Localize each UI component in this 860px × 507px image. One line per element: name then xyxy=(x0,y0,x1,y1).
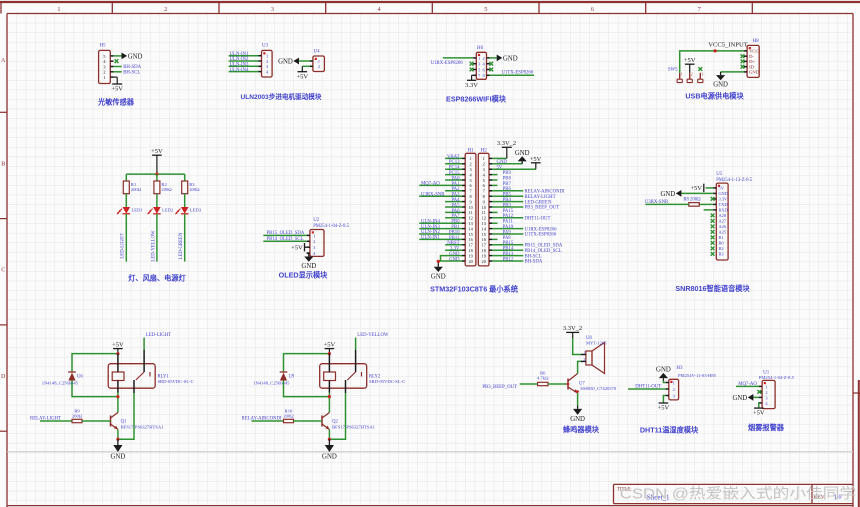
net label RELAY-LIGHT xyxy=(30,417,61,422)
svg-text:GND: GND xyxy=(732,395,747,402)
svg-text:5V: 5V xyxy=(497,166,503,171)
net label U3RX-SNR xyxy=(421,192,445,197)
svg-text:ULN-IN4: ULN-IN4 xyxy=(230,68,250,73)
ground GND at U1 pin3 xyxy=(732,394,753,402)
ground GND at H6 pin2 xyxy=(497,55,518,63)
pin name PB13 xyxy=(503,252,514,257)
svg-text:SNR8016智能语音模块: SNR8016智能语音模块 xyxy=(675,284,750,293)
resistor R1 200Ω xyxy=(123,181,141,194)
svg-text:200Ω: 200Ω xyxy=(131,187,142,192)
net label LED-GREEN vertical xyxy=(179,232,184,259)
wire H2 pin4 stub xyxy=(492,174,498,176)
no-connect X U5 A28 xyxy=(711,214,715,218)
svg-text:10: 10 xyxy=(468,205,472,210)
connector H8 designator xyxy=(753,39,760,44)
svg-text:LED-LIGHT: LED-LIGHT xyxy=(146,333,171,338)
wire H2 pin15 U1TX-ESP8266 xyxy=(492,233,523,235)
pin name GND H1 pin20 xyxy=(449,257,460,262)
wire emitter to ground xyxy=(117,430,119,440)
wire U1 pin3 to GND xyxy=(753,396,759,398)
svg-text:GND: GND xyxy=(111,453,126,460)
junction emitter Q1 xyxy=(116,438,119,441)
net label DHT11-OUT xyxy=(525,217,551,222)
row letters xyxy=(1,58,6,380)
svg-text:1: 1 xyxy=(478,56,480,61)
svg-text:H2: H2 xyxy=(481,148,488,153)
svg-text:3.3V_2: 3.3V_2 xyxy=(497,140,516,147)
connector U2 xyxy=(307,230,324,257)
pin name PB9 xyxy=(503,171,512,176)
svg-text:PA0: PA0 xyxy=(451,176,460,181)
wire LED-YELLOW to relay contact xyxy=(355,338,357,350)
wire H2 pin5 stub xyxy=(492,179,498,181)
connector H6 xyxy=(473,52,490,79)
power +5V at SW5 pin2 xyxy=(684,57,696,73)
svg-text:PA11: PA11 xyxy=(503,220,514,225)
no-connect X H8 D+ xyxy=(741,60,745,64)
svg-text:GND: GND xyxy=(656,367,671,374)
net label ULN-IN4 xyxy=(230,68,250,73)
svg-text:VCC: VCC xyxy=(749,49,758,54)
diode U9 1N4148 xyxy=(253,372,295,385)
net port VCC5_INPUT xyxy=(708,42,748,49)
wire U3 pin1 ULN-IN1 xyxy=(229,55,259,57)
power +5V at H2 pin3 xyxy=(530,156,542,169)
module title 蜂鸣器模块 xyxy=(563,425,600,434)
net label BH-SCL xyxy=(123,70,140,75)
wire H5 pin3 BH-SDA xyxy=(113,66,122,68)
net label BH-SDA xyxy=(123,65,141,70)
svg-text:2: 2 xyxy=(164,6,167,13)
svg-text:PB10: PB10 xyxy=(449,230,460,235)
svg-text:GND: GND xyxy=(570,416,585,423)
wire R10 to base xyxy=(294,420,323,422)
svg-text:PA4: PA4 xyxy=(451,198,460,203)
pin name PA10 xyxy=(503,225,514,230)
svg-text:13: 13 xyxy=(482,221,486,226)
wire H6 pin1 U1RX-ESP8266 xyxy=(443,57,474,59)
wire H3 pin1 to GND xyxy=(663,381,665,383)
svg-text:C: C xyxy=(1,268,5,274)
svg-text:PC15: PC15 xyxy=(449,171,460,176)
pin name PA15 xyxy=(503,209,514,214)
svg-text:7: 7 xyxy=(698,6,701,13)
svg-text:PA7: PA7 xyxy=(451,214,460,219)
svg-text:OLED显示模块: OLED显示模块 xyxy=(279,270,329,279)
wire H5 pin2 BH-SCL xyxy=(113,71,122,73)
connector U2 value PM254-1-04-Z-8.5 xyxy=(313,224,349,229)
svg-text:PB12: PB12 xyxy=(503,257,514,262)
pin name PA5 xyxy=(451,203,460,208)
net label ULN-IN3 xyxy=(421,225,441,230)
net label RELAY-AIRCONDI xyxy=(242,417,282,422)
no-connect X U5 B0 xyxy=(711,241,715,245)
wire H2 pin16 stub xyxy=(492,238,498,240)
svg-text:13: 13 xyxy=(468,221,472,226)
pin name PA3 xyxy=(451,193,460,198)
svg-text:PA8: PA8 xyxy=(503,236,512,241)
svg-text:3: 3 xyxy=(702,72,704,76)
pin name 3.3V xyxy=(450,247,460,252)
svg-text:ULN2003步进电机驱动模块: ULN2003步进电机驱动模块 xyxy=(241,92,322,101)
power +5V at H5 pin1 xyxy=(111,77,123,93)
wire diode U9 to coil bottom xyxy=(284,381,330,397)
net label MQ7-AO xyxy=(738,382,757,387)
wire R9 to base xyxy=(82,420,111,422)
svg-text:PC13: PC13 xyxy=(449,160,460,165)
svg-text:NRST: NRST xyxy=(447,241,459,246)
power 3.3V at H6 pin7 xyxy=(465,75,478,89)
wire H1 pin19 to GND xyxy=(441,256,463,261)
ground GND at H8 xyxy=(713,72,728,89)
svg-text:R8 200Ω: R8 200Ω xyxy=(683,198,701,203)
svg-text:200Ω: 200Ω xyxy=(283,413,294,418)
svg-text:RXD: RXD xyxy=(719,208,728,213)
no-connect X H6 pin4 xyxy=(489,62,493,66)
pin name PA2 xyxy=(451,187,460,192)
pin name PB7 xyxy=(503,182,512,187)
svg-text:BH-SDA: BH-SDA xyxy=(123,65,141,70)
wire H1 pin11 stub xyxy=(445,211,462,213)
svg-text:PB14_OLED_SCL: PB14_OLED_SCL xyxy=(525,249,562,254)
pin name NRST xyxy=(447,241,459,246)
pin name PB4 xyxy=(503,198,512,203)
svg-text:3: 3 xyxy=(470,167,472,172)
pin name PB10 xyxy=(449,230,460,235)
svg-text:5: 5 xyxy=(470,178,472,183)
svg-text:5: 5 xyxy=(484,6,487,13)
net label ULN-IN2 xyxy=(421,230,441,235)
svg-text:PM254-1-04-Z-8.5: PM254-1-04-Z-8.5 xyxy=(313,224,349,229)
wire U1 pin1 MQ7-AO xyxy=(736,385,759,387)
no-connect X U5 B3 xyxy=(711,252,715,256)
wire RELAY-AIRCONDI input xyxy=(252,420,284,422)
svg-text:MQ7-AO: MQ7-AO xyxy=(421,182,440,187)
wire H1 pin7 stub xyxy=(445,190,462,192)
svg-text:LED-YELLOW: LED-YELLOW xyxy=(151,230,156,262)
pin name PB11 xyxy=(449,236,460,241)
wire H2 pin19 BH-SCL xyxy=(492,255,523,257)
svg-text:PB11: PB11 xyxy=(449,236,460,241)
pin name PA6 xyxy=(451,209,460,214)
LED LED1 xyxy=(117,207,144,214)
svg-text:PA5: PA5 xyxy=(451,203,460,208)
module title 光敏传感器 xyxy=(97,97,135,106)
svg-text:ESP8266WIFI模块: ESP8266WIFI模块 xyxy=(446,95,507,104)
svg-text:U4: U4 xyxy=(314,50,321,55)
net label ULN-IN3 xyxy=(230,63,250,68)
wire diode U6 to coil bottom xyxy=(72,381,118,397)
svg-text:STM32F103C8T6 最小系统: STM32F103C8T6 最小系统 xyxy=(430,285,519,294)
pin name VBAT xyxy=(447,155,460,160)
pin name PA1 xyxy=(451,182,460,187)
wire R2 to LED2 xyxy=(156,194,158,207)
wire U3 pin3 ULN-IN3 xyxy=(229,65,259,67)
svg-text:A25: A25 xyxy=(719,230,727,235)
svg-text:5: 5 xyxy=(483,178,485,183)
svg-text:SS8050_C7420370: SS8050_C7420370 xyxy=(580,386,616,391)
module title ESP8266WIFI模块 xyxy=(446,95,507,104)
title block TITLE label xyxy=(617,488,632,493)
svg-text:蜂鸣器模块: 蜂鸣器模块 xyxy=(563,425,600,434)
svg-text:PB1: PB1 xyxy=(451,225,460,230)
power +5V at U4 pin2 xyxy=(296,66,308,80)
pin name PA8 xyxy=(503,236,512,241)
svg-text:18: 18 xyxy=(468,248,472,253)
wire LED2 to LED-YELLOW xyxy=(156,214,158,262)
pin name PB6 xyxy=(503,187,512,192)
no-connect X U1 pin2 xyxy=(757,390,761,394)
wire PB3_BEEP_OUT to R6 xyxy=(520,383,538,385)
power 3.3V_2 at H2 pin1 xyxy=(497,140,516,158)
net label LED-LIGHT xyxy=(146,333,171,338)
no-connect X U5 A26 xyxy=(711,225,715,229)
svg-text:LED-LIGHT: LED-LIGHT xyxy=(121,233,126,258)
connector U3 designator xyxy=(262,44,269,49)
svg-text:+5V: +5V xyxy=(530,156,542,163)
svg-text:H1: H1 xyxy=(467,148,474,153)
no-connect X H6 pin5 xyxy=(470,68,474,72)
wire U4 pin1 to GND xyxy=(299,60,310,62)
no-connect X H8 D- xyxy=(741,54,745,58)
pin name PB5 xyxy=(503,193,512,198)
wire U5 TXD to R8 xyxy=(699,203,713,205)
svg-text:3.3V: 3.3V xyxy=(719,197,728,202)
power 3.3V_2 buzzer xyxy=(563,325,582,338)
svg-text:BH-SDA: BH-SDA xyxy=(525,260,543,265)
title block revision 1.0 xyxy=(834,495,842,501)
wire LED1 to LED-LIGHT xyxy=(125,214,127,262)
svg-text:19: 19 xyxy=(468,253,472,258)
connector H5 xyxy=(99,50,114,83)
svg-text:11: 11 xyxy=(482,210,486,215)
no-connect X U5 A25 xyxy=(711,230,715,234)
ground GND below Q2 xyxy=(322,439,337,460)
svg-text:RELAY-AIRCONDI: RELAY-AIRCONDI xyxy=(525,190,565,195)
wire H2 pin18 PB14_OLED_SCL xyxy=(492,249,523,251)
svg-text:GND: GND xyxy=(503,55,518,62)
svg-text:PB9: PB9 xyxy=(503,171,512,176)
svg-text:BFS17-PS6327HTSA1: BFS17-PS6327HTSA1 xyxy=(332,424,376,429)
connector H1 xyxy=(462,153,476,266)
junction +5V RLY2 xyxy=(328,352,331,355)
power +5V below U1 xyxy=(753,408,765,417)
svg-text:2: 2 xyxy=(583,357,585,362)
net label DHT11-OUT xyxy=(635,385,661,390)
svg-text:+5V: +5V xyxy=(291,245,303,252)
svg-text:PA3: PA3 xyxy=(451,193,460,198)
wire H6 pin8 U1TX-ESP8266 xyxy=(490,74,535,76)
power +5V at RLY2 xyxy=(324,342,336,354)
svg-text:1: 1 xyxy=(57,6,60,13)
wire H1 pin6 MQ7-AO xyxy=(419,184,462,186)
no-connect X H6 pin6 xyxy=(489,68,493,72)
svg-text:2: 2 xyxy=(691,72,693,76)
pin name PA4 xyxy=(451,198,460,203)
wire RELAY-LIGHT input xyxy=(40,420,72,422)
transistor Q2 NPN xyxy=(322,413,376,430)
svg-text:+5V: +5V xyxy=(658,405,670,412)
svg-text:SRD-05VDC-SL-C: SRD-05VDC-SL-C xyxy=(369,379,405,384)
junction emitter Q2 xyxy=(328,438,331,441)
wire H3 pin2 DHT11-OUT xyxy=(628,388,666,390)
wire buzzer pin2 to collector xyxy=(578,361,581,373)
power +5V at U5 pin1 xyxy=(690,184,703,193)
net label PB15_OLED_SDA xyxy=(267,231,305,236)
svg-text:PA10: PA10 xyxy=(503,225,514,230)
wire H2 pin8 RELAY-LIGHT xyxy=(492,195,523,197)
connector U4 designator xyxy=(314,50,321,55)
wire U1 pin4 to +5V xyxy=(758,403,760,408)
connector U1 xyxy=(759,380,775,408)
wire H1 pin2 stub xyxy=(445,163,462,165)
connector H2 designator xyxy=(481,148,488,153)
svg-text:200Ω: 200Ω xyxy=(189,187,200,192)
svg-text:TXD: TXD xyxy=(719,202,728,207)
svg-text:B2: B2 xyxy=(719,246,724,251)
svg-text:USB电源供电模块: USB电源供电模块 xyxy=(685,92,744,101)
svg-text:3: 3 xyxy=(483,167,485,172)
pin name PB15 xyxy=(503,241,514,246)
svg-text:D+: D+ xyxy=(749,59,755,64)
svg-text:GND: GND xyxy=(322,453,337,460)
transistor U7 SS8050 xyxy=(568,374,617,394)
svg-text:ULN-IN1: ULN-IN1 xyxy=(421,236,441,241)
wire emitter to ground xyxy=(328,430,330,440)
svg-text:LED-GREEN: LED-GREEN xyxy=(525,200,552,205)
pin name PB12 xyxy=(503,257,514,262)
connector H6 designator xyxy=(477,46,484,51)
connector U5 value PM254-1-13-Z-8.5 xyxy=(716,178,752,183)
wire H2 pin3 to +5V xyxy=(492,168,536,170)
svg-text:20: 20 xyxy=(482,259,486,264)
no-connect X H5 pin4 xyxy=(115,59,119,63)
svg-text:2: 2 xyxy=(470,162,472,167)
wire H6 pin2 to GND xyxy=(490,57,497,59)
svg-text:GND: GND xyxy=(278,58,293,65)
svg-text:1N4148_C2566045: 1N4148_C2566045 xyxy=(42,380,79,385)
svg-text:ULN-IN3: ULN-IN3 xyxy=(230,63,250,68)
svg-text:PA15: PA15 xyxy=(503,209,514,214)
svg-text:3: 3 xyxy=(271,6,274,13)
svg-text:光敏传感器: 光敏传感器 xyxy=(97,97,135,106)
pin name PB8 xyxy=(503,176,512,181)
module title DHT11温湿度模块 xyxy=(640,426,699,435)
svg-text:U6: U6 xyxy=(77,375,83,380)
svg-text:200Ω: 200Ω xyxy=(161,187,172,192)
junction emitter U7 xyxy=(576,390,579,393)
svg-text:3.3V: 3.3V xyxy=(450,247,460,252)
net label RELAY-AIRCONDI xyxy=(525,190,565,195)
wire U2 pin2 PB14_OLED_SCL xyxy=(263,240,307,242)
switch SW5 xyxy=(668,67,704,82)
svg-text:PB5: PB5 xyxy=(503,193,512,198)
wire H2 pin1 to 3.3V_2 xyxy=(492,157,507,159)
wire U3 pin4 ULN-IN4 xyxy=(229,71,259,73)
wire H1 pin3 stub xyxy=(445,168,462,170)
svg-text:PA1: PA1 xyxy=(451,182,460,187)
connector U3 xyxy=(258,50,272,77)
svg-text:PC14: PC14 xyxy=(449,166,460,171)
junction base U7 xyxy=(567,383,570,386)
svg-text:+5V: +5V xyxy=(112,342,124,349)
svg-text:6: 6 xyxy=(591,6,594,13)
resistor R6 4.7kΩ xyxy=(537,370,549,385)
watermark CSDN xyxy=(620,486,857,503)
svg-text:U1RX-ESP8266: U1RX-ESP8266 xyxy=(525,227,558,232)
svg-text:10: 10 xyxy=(482,205,486,210)
wire H1 pin20 to GND xyxy=(438,261,462,263)
resistor R3 200Ω xyxy=(182,181,200,194)
wire R1 to LED1 xyxy=(125,194,127,207)
wire relay common to emitter xyxy=(329,393,345,439)
svg-text:ULN-IN3: ULN-IN3 xyxy=(421,225,441,230)
wire H2 pin17 PB15_OLED_SDA xyxy=(492,244,523,246)
wire H8 GND xyxy=(721,71,745,73)
wire LED-LIGHT to relay contact xyxy=(143,338,145,350)
pin name PC13 xyxy=(449,160,460,165)
svg-text:PB3_BEEP_OUT: PB3_BEEP_OUT xyxy=(482,385,517,390)
power +5V below H3 xyxy=(658,403,670,412)
svg-text:PA6: PA6 xyxy=(451,209,460,214)
svg-text:CSDN @热爱嵌入式的小佳同学: CSDN @热爱嵌入式的小佳同学 xyxy=(620,486,857,503)
connector H8 xyxy=(744,45,760,77)
svg-text:11: 11 xyxy=(469,210,473,215)
wire U4 pin2 to +5V xyxy=(302,65,310,67)
wire coil to transistor collector Q1 xyxy=(117,393,119,413)
svg-text:18: 18 xyxy=(482,248,486,253)
wire H1 pin5 stub xyxy=(445,179,462,181)
wire U5 5V to +5V xyxy=(706,187,714,189)
svg-text:PB13: PB13 xyxy=(503,252,514,257)
svg-text:H5: H5 xyxy=(100,44,107,49)
svg-text:A27: A27 xyxy=(719,219,727,224)
junction coil bottom RLY2 xyxy=(328,395,331,398)
svg-text:12: 12 xyxy=(482,216,486,221)
svg-text:1: 1 xyxy=(765,384,767,389)
svg-text:9: 9 xyxy=(470,199,472,204)
wire R3 to LED3 xyxy=(184,194,186,207)
wire H1 pin13 ULN-IN4 xyxy=(419,222,462,224)
svg-text:GND: GND xyxy=(713,82,728,89)
svg-text:GND: GND xyxy=(749,70,760,75)
wire LED3 to LED-GREEN xyxy=(184,214,186,262)
svg-text:H8: H8 xyxy=(753,39,760,44)
net label PB14_OLED_SCL xyxy=(267,237,304,242)
wire U5 RXD stub xyxy=(704,209,714,211)
svg-text:2: 2 xyxy=(482,56,484,61)
no-connect X H6 pin3 xyxy=(470,62,474,66)
module title ULN2003步进电机驱动模块 xyxy=(241,92,322,101)
svg-text:LED-GREEN: LED-GREEN xyxy=(179,232,184,259)
svg-text:MYT-1205: MYT-1205 xyxy=(586,341,607,346)
svg-text:PM254-1-04-Z-8.5: PM254-1-04-Z-8.5 xyxy=(759,375,795,380)
svg-text:PB0: PB0 xyxy=(451,220,460,225)
wire H1 pin15 ULN-IN2 xyxy=(419,233,462,235)
wire H1 pin1 stub xyxy=(445,157,462,159)
no-connect X U5 A27 xyxy=(711,219,715,223)
svg-text:+5V: +5V xyxy=(690,185,702,192)
svg-text:1: 1 xyxy=(673,380,675,385)
svg-text:PM254V-11-03-H85: PM254V-11-03-H85 xyxy=(678,373,717,378)
svg-text:PB15_OLED_SDA: PB15_OLED_SDA xyxy=(267,231,305,236)
resistor R8 200Ω xyxy=(683,198,701,207)
wire +5V to diode U6 anode loop xyxy=(72,354,118,372)
net label PB15_OLED_SDA xyxy=(525,244,563,249)
svg-text:H6: H6 xyxy=(477,46,484,51)
svg-text:2: 2 xyxy=(483,162,485,167)
title block sheet name Sheet_1 xyxy=(647,494,670,502)
